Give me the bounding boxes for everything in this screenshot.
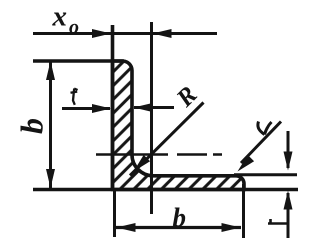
label t: [71, 89, 78, 105]
dimension t (right arrow): [134, 106, 174, 109]
dimension t (right side vertical): down arrow: [287, 131, 290, 168]
top extension line (leg top, extends left for b): [33, 59, 124, 62]
label t (bottom right, rotated): [268, 219, 287, 224]
dimension x0: line: [33, 32, 217, 35]
dimension x0: right-pointing arrowhead: [92, 29, 111, 38]
left face + x0 extension line: [111, 25, 115, 190]
toe extension line (right end of horizontal leg): [242, 184, 245, 238]
svg-text:x: x: [52, 1, 68, 33]
leader r: [241, 122, 281, 164]
label r: [258, 122, 272, 135]
svg-text:o: o: [69, 17, 79, 39]
dimension b (left): line with arrows: [49, 61, 52, 188]
dimension t (left arrow): [62, 107, 110, 110]
dimension t (right side vertical): up arrow: [287, 193, 290, 238]
right t extension line (top face extended): [234, 173, 297, 176]
vertical centroid axis: [150, 22, 153, 214]
angle profile (hatched L cross-section): [113, 61, 245, 190]
dimension x0: left-pointing arrowhead: [153, 29, 172, 38]
bottom-left extension line: [113, 190, 116, 237]
bottom face line extended both sides: [33, 188, 298, 192]
leader R: [130, 103, 204, 176]
svg-text:b: b: [14, 118, 50, 134]
horizontal centroid axis (dash-dot): [96, 153, 222, 155]
dimension b (bottom): line with outward arrowheads: [116, 226, 241, 229]
svg-text:b: b: [173, 203, 187, 233]
